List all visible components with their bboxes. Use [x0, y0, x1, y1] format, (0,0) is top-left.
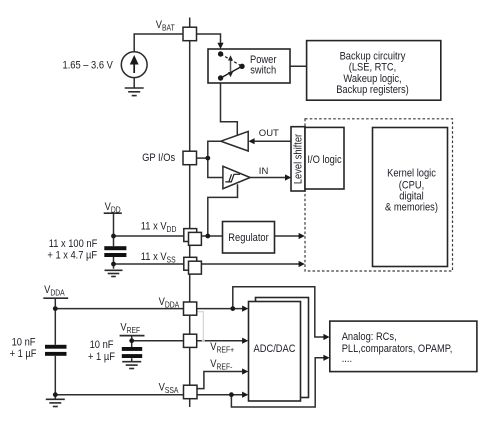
- svg-text:Backup registers): Backup registers): [336, 84, 409, 96]
- svg-text:1.65 – 3.6 V: 1.65 – 3.6 V: [63, 60, 114, 72]
- svg-text:Analog: RCs,: Analog: RCs,: [342, 331, 397, 343]
- svg-text:switch: switch: [250, 65, 276, 77]
- svg-text:(LSE, RTC,: (LSE, RTC,: [349, 62, 397, 74]
- svg-text:(CPU,: (CPU,: [399, 180, 424, 192]
- svg-text:Wakeup logic,: Wakeup logic,: [343, 73, 401, 85]
- svg-text:OUT: OUT: [259, 128, 279, 139]
- svg-text:digital: digital: [399, 191, 423, 203]
- svg-text:10 nF: 10 nF: [90, 339, 114, 351]
- svg-text:....: ....: [342, 353, 352, 365]
- svg-text:Backup circuitry: Backup circuitry: [340, 51, 407, 63]
- svg-text:Level shifter: Level shifter: [293, 133, 305, 184]
- svg-text:10 nF: 10 nF: [12, 337, 36, 349]
- svg-text:IN: IN: [259, 166, 269, 177]
- svg-text:PLL,comparators, OPAMP,: PLL,comparators, OPAMP,: [342, 343, 453, 355]
- svg-text:ADC/DAC: ADC/DAC: [253, 344, 295, 356]
- svg-text:+ 1 x 4.7 µF: + 1 x 4.7 µF: [47, 250, 97, 262]
- svg-text:11 x 100 nF: 11 x 100 nF: [49, 239, 98, 251]
- svg-text:+ 1 µF: + 1 µF: [88, 351, 115, 363]
- svg-text:I/O logic: I/O logic: [307, 154, 341, 166]
- svg-text:Kernel logic: Kernel logic: [387, 168, 436, 180]
- svg-text:GP I/Os: GP I/Os: [142, 153, 175, 165]
- svg-text:+ 1 µF: + 1 µF: [10, 348, 37, 360]
- svg-text:& memories): & memories): [385, 202, 438, 214]
- svg-text:Regulator: Regulator: [228, 232, 269, 244]
